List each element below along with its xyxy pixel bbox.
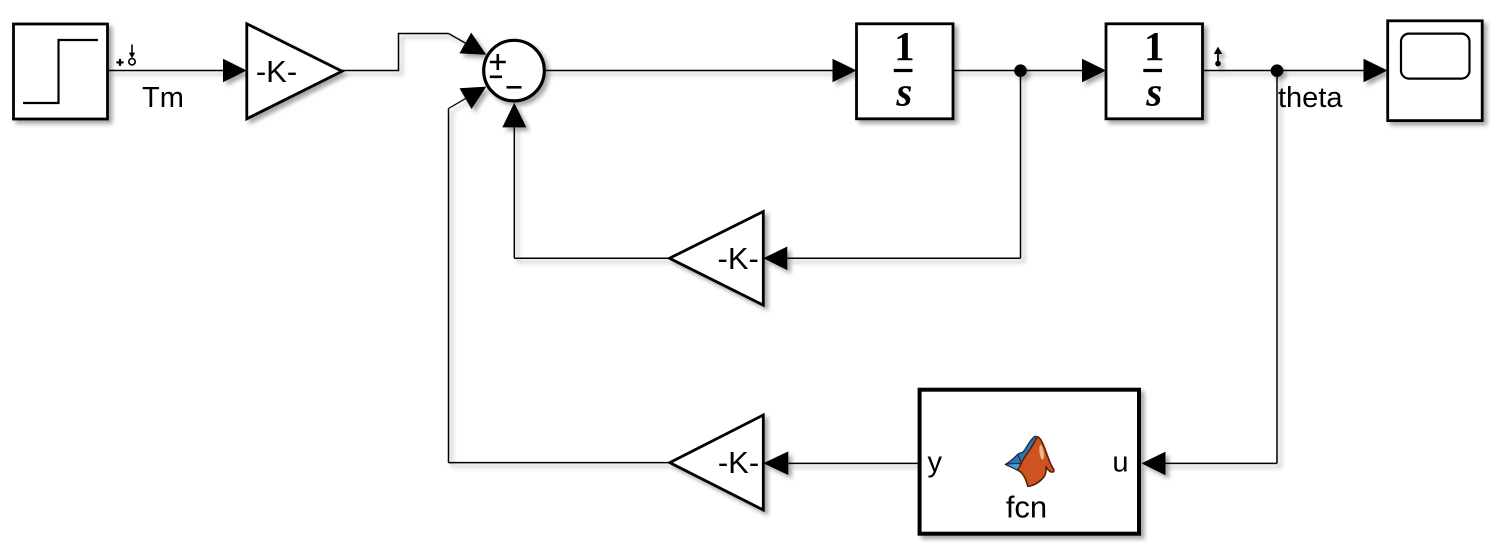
svg-text:u: u xyxy=(1112,447,1128,479)
svg-text:Tm: Tm xyxy=(142,82,184,114)
svg-text:1: 1 xyxy=(894,23,915,69)
svg-text:-K-: -K- xyxy=(718,241,759,276)
svg-text:s: s xyxy=(895,69,912,115)
svg-text:y: y xyxy=(928,447,943,479)
svg-text:-K-: -K- xyxy=(718,445,759,480)
svg-text:fcn: fcn xyxy=(1006,489,1047,524)
svg-text:1: 1 xyxy=(1144,23,1165,69)
svg-text:-K-: -K- xyxy=(256,54,297,89)
svg-text:s: s xyxy=(1145,69,1162,115)
svg-text:theta: theta xyxy=(1278,82,1343,114)
